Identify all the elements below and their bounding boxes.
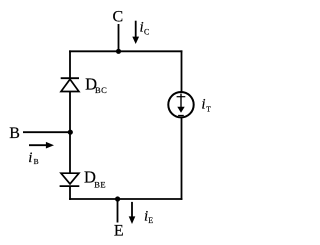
diode D_BE (anode at base, cathode bar toward E) bbox=[60, 173, 80, 186]
svg-text:BC: BC bbox=[95, 85, 107, 95]
svg-text:B: B bbox=[9, 125, 20, 142]
wire E terminal stub bbox=[117, 199, 119, 223]
wire left lower segment bbox=[69, 186, 71, 200]
node B junction dot bbox=[68, 130, 73, 135]
arrow i_B (rightward) bbox=[29, 142, 54, 149]
svg-text:i: i bbox=[201, 96, 205, 112]
svg-text:BE: BE bbox=[94, 179, 106, 189]
svg-text:E: E bbox=[114, 222, 124, 239]
current source i_T bbox=[168, 92, 193, 117]
node E junction dot bbox=[115, 196, 120, 201]
wire left middle segment bbox=[69, 91, 71, 174]
arrow i_C (downward) bbox=[132, 21, 139, 44]
wire right upper segment bbox=[181, 50, 183, 92]
svg-text:i: i bbox=[28, 150, 32, 166]
wire left upper segment bbox=[69, 50, 71, 78]
wire bottom (E rail) bbox=[69, 198, 182, 200]
svg-text:C: C bbox=[144, 27, 149, 36]
svg-text:C: C bbox=[113, 9, 124, 26]
svg-text:T: T bbox=[206, 104, 211, 113]
wire right lower segment bbox=[181, 117, 183, 200]
arrow i_E (downward) bbox=[129, 202, 136, 224]
diode D_BC (anode at base, cathode bar toward C) bbox=[61, 78, 79, 91]
wire B terminal stub bbox=[23, 131, 70, 133]
svg-text:E: E bbox=[148, 216, 153, 225]
wire top (C rail) bbox=[69, 50, 182, 52]
svg-text:B: B bbox=[34, 157, 39, 166]
wire C terminal stub bbox=[118, 24, 120, 51]
node C junction dot bbox=[116, 49, 121, 54]
